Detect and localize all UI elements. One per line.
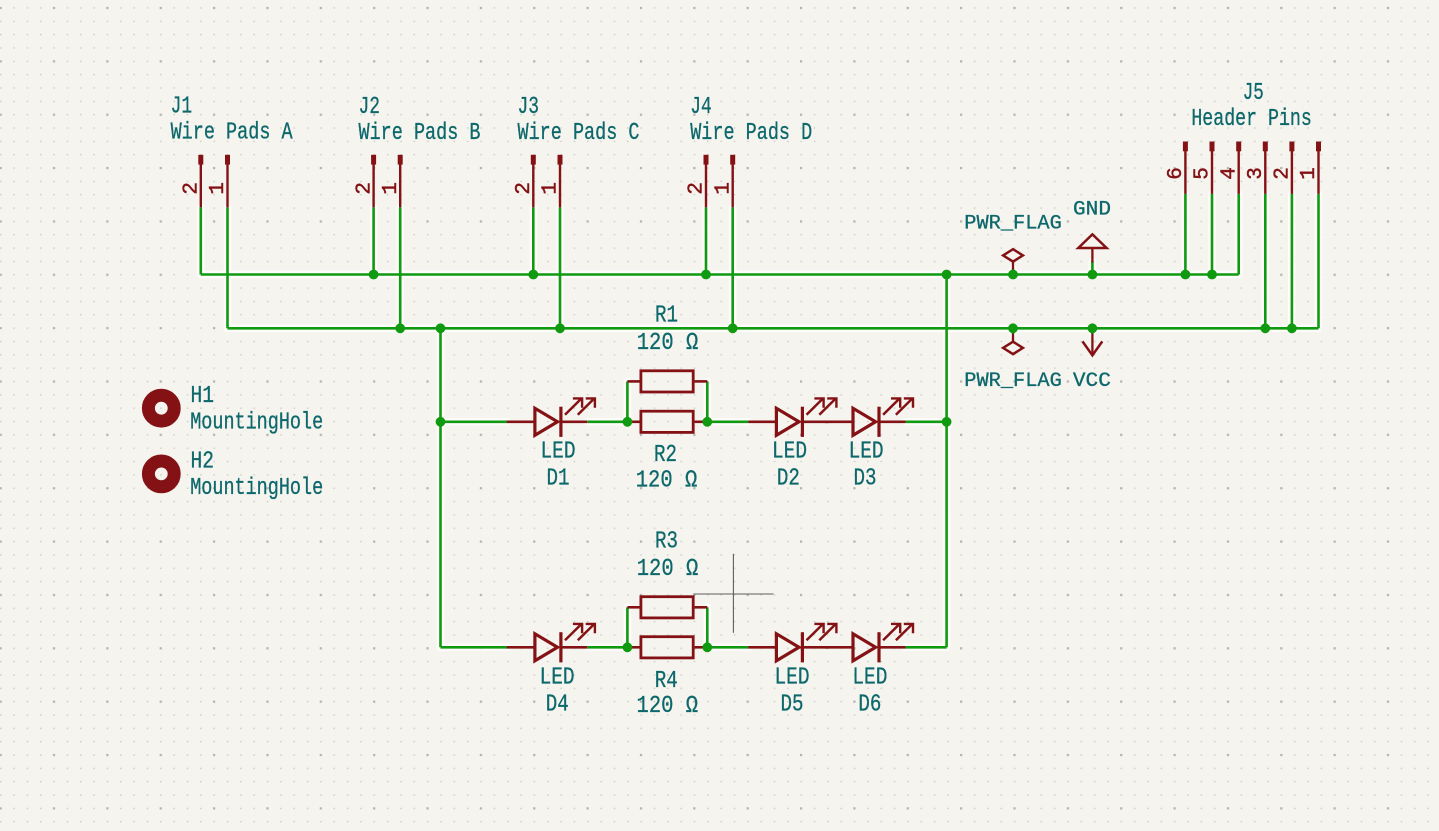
resistor R4 bbox=[627, 637, 707, 658]
junction J3.2 on GND bus bbox=[528, 270, 538, 280]
junction J2.1 on VCC bus bbox=[395, 323, 405, 333]
wire J1 pin1 to VCC bus bbox=[226, 207, 229, 328]
wire J3 pin1 drop bbox=[559, 207, 562, 328]
svg-text:PWR_FLAG: PWR_FLAG bbox=[964, 370, 1062, 393]
J5 pin 6 bbox=[1183, 142, 1188, 152]
wire J3 pin2 drop bbox=[532, 207, 535, 274]
svg-text:VCC: VCC bbox=[1073, 370, 1111, 393]
wire row1 seg B bbox=[588, 420, 628, 423]
wire GND stub bbox=[1091, 262, 1094, 275]
junction R3-R4 left bbox=[623, 642, 633, 652]
wire PWR_FLAG2 stub bbox=[1012, 328, 1015, 334]
svg-text:R4: R4 bbox=[655, 668, 678, 695]
svg-text:LED: LED bbox=[849, 439, 884, 466]
svg-text:4: 4 bbox=[1218, 167, 1241, 180]
junction left rail on VCC bus bbox=[436, 323, 446, 333]
wire row2 seg D bbox=[906, 646, 947, 649]
wire J2 pin2 drop bbox=[372, 207, 375, 274]
junction right rail / row1 bbox=[942, 417, 952, 427]
svg-text:5: 5 bbox=[1192, 167, 1215, 180]
connector J2 bbox=[0, 0, 1, 1]
J5 pin 5 bbox=[1210, 142, 1215, 152]
wire J5 pin2 drop bbox=[1291, 194, 1294, 328]
connector J1 bbox=[0, 0, 1, 1]
wire R3 left stub bbox=[626, 607, 629, 647]
wire row2 seg A bbox=[441, 646, 508, 649]
junction left rail / row1 bbox=[436, 417, 446, 427]
svg-text:GND: GND bbox=[1073, 199, 1111, 222]
svg-text:1: 1 bbox=[207, 182, 230, 195]
wire row2 seg C bbox=[707, 646, 748, 649]
J5 pin 1 bbox=[1316, 142, 1321, 152]
svg-text:Wire Pads C: Wire Pads C bbox=[518, 120, 640, 147]
wire row1 seg D bbox=[906, 420, 947, 423]
J5 pin 2 bbox=[1289, 142, 1294, 152]
svg-text:D3: D3 bbox=[854, 466, 877, 493]
LED D4 bbox=[507, 624, 595, 662]
svg-text:D4: D4 bbox=[546, 691, 569, 718]
svg-text:J2: J2 bbox=[359, 94, 381, 121]
wire R1 left stub bbox=[626, 381, 629, 421]
svg-text:LED: LED bbox=[772, 439, 807, 466]
wire J1 pin2 to GND bus bbox=[200, 207, 203, 274]
power flag PWR_FLAG (VCC bus) bbox=[1003, 334, 1023, 355]
svg-text:2: 2 bbox=[181, 182, 204, 195]
junction J5.5 on GND bus bbox=[1207, 270, 1217, 280]
svg-text:120 Ω: 120 Ω bbox=[637, 330, 699, 357]
svg-text:2: 2 bbox=[686, 182, 709, 195]
J2 pin 2 bbox=[371, 155, 376, 165]
LED D2 bbox=[748, 398, 836, 436]
svg-text:R2: R2 bbox=[654, 442, 677, 469]
wire row2 seg B bbox=[588, 646, 628, 649]
svg-text:1: 1 bbox=[380, 182, 403, 195]
svg-text:1: 1 bbox=[1298, 167, 1321, 180]
svg-text:J4: J4 bbox=[690, 94, 712, 121]
J3 pin 1 bbox=[558, 155, 563, 165]
J4 pin 2 bbox=[704, 155, 709, 165]
junction J5.6 on GND bus bbox=[1181, 270, 1191, 280]
svg-text:Wire Pads D: Wire Pads D bbox=[690, 120, 812, 147]
wire left rail bbox=[439, 328, 442, 647]
wire row1 seg A bbox=[441, 420, 508, 423]
wire VCC bus bbox=[228, 327, 1319, 330]
LED D3 bbox=[825, 398, 913, 436]
svg-text:120 Ω: 120 Ω bbox=[637, 556, 699, 583]
J5 pin 4 bbox=[1236, 142, 1241, 152]
resistor R2 bbox=[627, 411, 707, 432]
mounting hole H1 bbox=[148, 395, 174, 421]
connector J5 bbox=[0, 0, 1, 1]
junction GND on GND bus bbox=[1088, 270, 1098, 280]
junction J4.2 on GND bus bbox=[701, 270, 711, 280]
svg-text:2: 2 bbox=[353, 182, 376, 195]
wire J5 pin6 drop bbox=[1184, 194, 1187, 275]
junction J3.1 on VCC bus bbox=[555, 323, 565, 333]
svg-text:120 Ω: 120 Ω bbox=[636, 467, 698, 494]
wire R1 right stub bbox=[706, 381, 709, 421]
svg-text:MountingHole: MountingHole bbox=[190, 410, 323, 437]
junction PWR_FLAG1 on GND bus bbox=[1008, 270, 1018, 280]
svg-text:2: 2 bbox=[1272, 167, 1295, 180]
J3 pin 2 bbox=[531, 155, 536, 165]
J5 pin 3 bbox=[1263, 142, 1268, 152]
svg-text:Wire Pads A: Wire Pads A bbox=[171, 120, 294, 147]
wire J2 pin1 drop bbox=[399, 207, 402, 328]
svg-text:D2: D2 bbox=[777, 466, 800, 493]
power symbol VCC (rotated) bbox=[1083, 334, 1103, 356]
wire GND bus bbox=[201, 273, 1239, 276]
LED D5 bbox=[748, 624, 836, 662]
junction J4.1 on VCC bus bbox=[728, 323, 738, 333]
wire J5 pin3 drop bbox=[1264, 194, 1267, 328]
svg-text:LED: LED bbox=[541, 439, 576, 466]
junction right rail on GND bus bbox=[942, 270, 952, 280]
wire J4 pin1 drop bbox=[731, 207, 734, 328]
svg-text:H1: H1 bbox=[191, 383, 215, 410]
wire J5 pin4 to GND bus bbox=[1237, 194, 1240, 275]
connector J3 bbox=[0, 0, 1, 1]
svg-text:J3: J3 bbox=[518, 94, 540, 121]
mounting hole H2 bbox=[148, 461, 174, 487]
svg-text:D1: D1 bbox=[547, 466, 570, 493]
junction PWR_FLAG2 on VCC bus bbox=[1008, 323, 1018, 333]
wire VCC stub bbox=[1091, 328, 1094, 334]
svg-text:2: 2 bbox=[513, 182, 536, 195]
junction R3-R4 right bbox=[702, 642, 712, 652]
svg-text:MountingHole: MountingHole bbox=[190, 475, 323, 502]
svg-text:D5: D5 bbox=[781, 691, 804, 718]
svg-text:LED: LED bbox=[852, 664, 887, 691]
resistor R1 bbox=[627, 371, 707, 392]
connector J4 bbox=[0, 0, 1, 1]
junction R1-R2 left bbox=[623, 417, 633, 427]
svg-text:J1: J1 bbox=[171, 94, 193, 121]
junction J5.3 on VCC bus bbox=[1260, 323, 1270, 333]
svg-text:1: 1 bbox=[540, 182, 563, 195]
svg-text:120 Ω: 120 Ω bbox=[637, 693, 699, 720]
J2 pin 1 bbox=[398, 155, 403, 165]
svg-text:LED: LED bbox=[540, 664, 575, 691]
J1 pin 1 bbox=[225, 155, 230, 165]
J1 pin 2 bbox=[198, 155, 203, 165]
junction VCC on VCC bus bbox=[1088, 323, 1098, 333]
svg-text:D6: D6 bbox=[858, 691, 881, 718]
junction J5.2 on VCC bus bbox=[1287, 323, 1297, 333]
power flag PWR_FLAG (GND bus) bbox=[1003, 249, 1023, 269]
svg-text:PWR_FLAG: PWR_FLAG bbox=[964, 212, 1062, 235]
wire row1 seg C bbox=[707, 420, 748, 423]
ground symbol GND bbox=[1078, 234, 1106, 262]
LED D6 bbox=[825, 624, 913, 662]
svg-text:6: 6 bbox=[1165, 167, 1188, 180]
wire R3 right stub bbox=[706, 607, 709, 647]
svg-text:R3: R3 bbox=[655, 529, 678, 556]
wire PWR_FLAG1 stub bbox=[1012, 269, 1015, 275]
svg-text:Header Pins: Header Pins bbox=[1191, 106, 1312, 133]
cursor crosshair bbox=[693, 554, 773, 633]
svg-text:3: 3 bbox=[1245, 167, 1268, 180]
resistor R3 bbox=[627, 597, 707, 618]
LED D1 bbox=[507, 398, 595, 436]
svg-text:1: 1 bbox=[712, 182, 735, 195]
svg-text:J5: J5 bbox=[1243, 80, 1264, 107]
junction R1-R2 right bbox=[702, 417, 712, 427]
J4 pin 1 bbox=[730, 155, 735, 165]
svg-text:LED: LED bbox=[775, 664, 810, 691]
wire J4 pin2 drop bbox=[705, 207, 708, 274]
wire right rail bbox=[945, 275, 948, 648]
svg-text:Wire Pads B: Wire Pads B bbox=[359, 120, 481, 147]
wire J5 pin1 to VCC bus bbox=[1317, 194, 1320, 328]
svg-text:H2: H2 bbox=[191, 449, 215, 476]
wire J5 pin5 drop bbox=[1211, 194, 1214, 275]
junction J2.2 on GND bus bbox=[369, 270, 379, 280]
svg-text:R1: R1 bbox=[655, 303, 678, 330]
